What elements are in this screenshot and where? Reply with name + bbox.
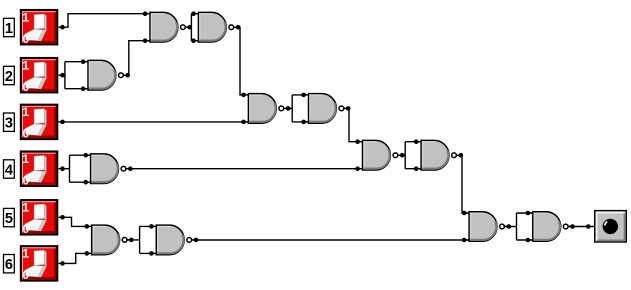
NAND F (inverter on input 4) U6 xyxy=(83,153,132,185)
node: input 4 output junction xyxy=(60,166,65,171)
NAND B (inverter stage of A) U2 xyxy=(191,11,240,43)
label box 5 xyxy=(4,208,15,227)
wire U10 output to LED xyxy=(568,226,595,228)
toggle switch input SW3 xyxy=(21,105,58,141)
NAND J (inverter stage of I) U10 xyxy=(526,211,575,243)
toggle switch input SW5 xyxy=(21,200,58,236)
NAND G U7 xyxy=(355,139,404,171)
wire input5 to U11 top xyxy=(58,217,91,226)
label box 2 xyxy=(4,66,15,85)
NAND K U11 xyxy=(85,224,134,256)
wire U11 output tied to U12 inputs xyxy=(127,226,156,253)
wire input1 to U1 top xyxy=(58,14,149,28)
wire U3 output to U1 bottom xyxy=(123,41,149,75)
wire U8 output to U9 top xyxy=(456,155,468,213)
svg-text:1: 1 xyxy=(5,21,13,37)
toggle switch input SW6 xyxy=(21,246,58,282)
wire U2 output to U4 top xyxy=(234,27,248,95)
node: input 2 output junction xyxy=(60,73,65,78)
label box 1 xyxy=(4,18,15,37)
node: input 1 output junction xyxy=(60,25,65,30)
wire U5 output to U7 top xyxy=(344,108,362,141)
NAND L (inverter stage of K) U12 xyxy=(149,224,198,256)
node: junction before LED xyxy=(586,224,591,229)
label box 6 xyxy=(4,255,15,274)
svg-text:2: 2 xyxy=(5,69,13,85)
wire input3 to U4 bottom xyxy=(58,121,247,123)
svg-text:3: 3 xyxy=(5,116,13,132)
NAND A U1 xyxy=(143,11,192,43)
node: input 3 output junction xyxy=(60,120,65,125)
wire input6 to U11 bottom xyxy=(58,253,91,263)
node: input 6 output junction xyxy=(60,261,65,266)
wire input4 branch to U6 inputs xyxy=(58,155,90,182)
wire U7 output tied to U8 inputs xyxy=(398,142,421,169)
toggle switch input SW4 xyxy=(21,151,58,187)
toggle switch input SW2 xyxy=(21,58,58,94)
NAND C (inverter on input 2) U3 xyxy=(81,59,130,91)
wire U4 output tied to U5 inputs xyxy=(284,95,308,122)
wire input2 branch to U3 inputs xyxy=(58,62,87,89)
svg-text:4: 4 xyxy=(5,163,13,179)
wire U12 output to U9 bottom xyxy=(192,239,469,241)
NAND H (inverter stage of G) U8 xyxy=(414,139,463,171)
NAND E (inverter stage of D) U5 xyxy=(301,93,350,125)
NAND D U4 xyxy=(241,93,290,125)
toggle switch input SW1 xyxy=(21,10,58,46)
svg-text:5: 5 xyxy=(5,211,13,227)
LED output U13 xyxy=(595,211,627,242)
label box 3 xyxy=(4,113,15,132)
wire U9 output tied to U10 inputs xyxy=(504,213,532,240)
NAND I U9 xyxy=(462,211,511,243)
svg-text:6: 6 xyxy=(5,257,13,273)
wire U1 output tied to U2 inputs xyxy=(185,14,198,41)
wire U6 output to U7 bottom xyxy=(126,168,362,170)
node: input 5 output junction xyxy=(60,215,65,220)
label box 4 xyxy=(4,160,15,179)
